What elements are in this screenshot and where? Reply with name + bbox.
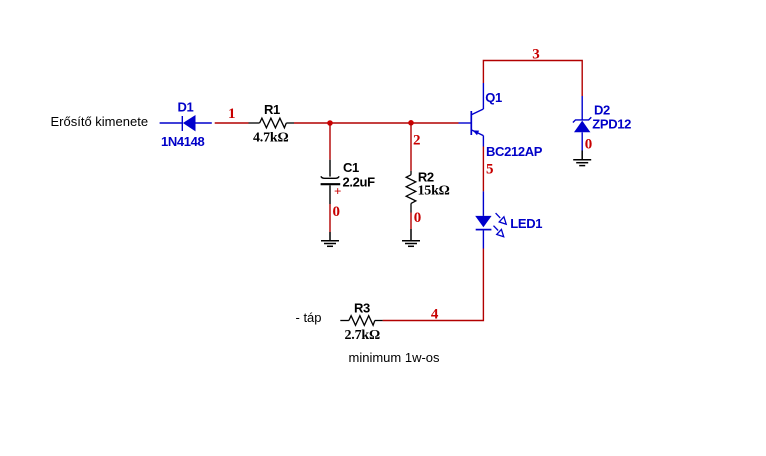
resistor R2 [406, 171, 416, 213]
wire net 5 (emitter to LED1) [482, 147, 484, 192]
ground at C1 [321, 232, 339, 246]
svg-text:minimum 1w-os: minimum 1w-os [349, 350, 441, 365]
junction dot at C1 [327, 120, 333, 126]
junction dot at R2 [408, 120, 414, 126]
svg-text:2.2uF: 2.2uF [343, 175, 376, 190]
transistor Q1 [459, 83, 484, 147]
svg-text:0: 0 [585, 137, 593, 153]
svg-text:R1: R1 [264, 102, 280, 117]
svg-text:C1: C1 [343, 160, 359, 175]
svg-text:15kΩ: 15kΩ [418, 184, 450, 199]
diode D1 [160, 115, 212, 131]
svg-text:2: 2 [413, 132, 421, 148]
wire net 3 (collector to D2) [483, 61, 582, 97]
ground at R2 [402, 229, 420, 246]
svg-text:2.7kΩ: 2.7kΩ [345, 328, 381, 343]
resistor R1 [249, 118, 295, 128]
svg-text:- táp: - táp [296, 310, 322, 325]
svg-text:ZPD12: ZPD12 [592, 117, 631, 132]
wire net 2 (R2 branch down) [410, 123, 412, 229]
svg-text:R3: R3 [354, 301, 370, 316]
svg-text:Erősítő kimenete: Erősítő kimenete [51, 114, 149, 129]
svg-text:R2: R2 [418, 170, 434, 185]
wire net 1 (D1 to R1) [215, 122, 249, 124]
svg-text:1N4148: 1N4148 [161, 134, 205, 149]
svg-text:0: 0 [333, 204, 341, 220]
ground at D2 [573, 151, 591, 166]
svg-text:+: + [334, 184, 341, 199]
wire net (R1 to Q1 base) [294, 122, 459, 124]
zener diode D2 [573, 96, 591, 151]
svg-text:D2: D2 [594, 102, 610, 117]
svg-text:4: 4 [431, 307, 439, 323]
LED LED1 [475, 191, 506, 248]
resistor R3 [340, 316, 382, 326]
svg-text:LED1: LED1 [510, 216, 542, 231]
svg-text:D1: D1 [178, 100, 194, 115]
wire net 4 (LED1 to R3) [383, 249, 484, 321]
svg-text:1: 1 [228, 106, 236, 122]
wire net 0 (C1 branch down) [329, 123, 331, 232]
capacitor C1 [321, 160, 341, 204]
svg-text:4.7kΩ: 4.7kΩ [253, 130, 289, 145]
svg-text:0: 0 [414, 210, 422, 226]
svg-text:5: 5 [486, 161, 494, 177]
svg-text:Q1: Q1 [485, 90, 502, 105]
svg-text:3: 3 [532, 46, 540, 62]
svg-text:BC212AP: BC212AP [486, 144, 543, 159]
